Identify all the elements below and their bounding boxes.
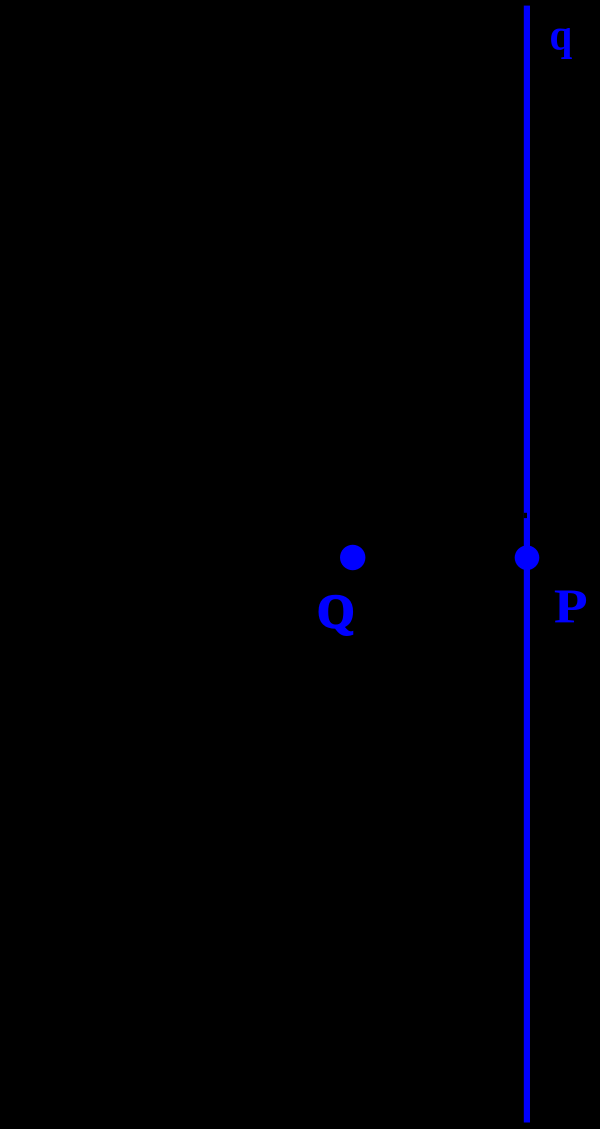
line q (vertical blue line) <box>524 6 530 1123</box>
svg-text:q: q <box>549 11 572 60</box>
notch (black gap artifact on line q) <box>524 513 527 518</box>
point P (dot on line q) <box>515 545 540 570</box>
svg-text:Q: Q <box>317 585 354 638</box>
svg-text:P: P <box>554 579 588 633</box>
point Q (dot) <box>340 545 365 570</box>
